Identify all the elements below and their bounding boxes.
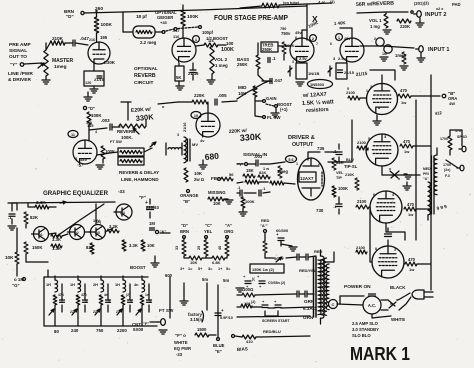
potentiometer VOL1 1meg <box>369 14 388 29</box>
resistor 10K in <box>5 252 19 264</box>
label driver pins <box>296 162 320 166</box>
ground cathode box <box>90 86 98 93</box>
label stage circled 2 <box>310 35 317 42</box>
svg-text:60/300: 60/300 <box>276 228 289 233</box>
tube V9 reverb-recovery <box>73 140 97 164</box>
wire eq band 1 bottom <box>54 322 56 326</box>
svg-text:250K: 250K <box>262 47 272 52</box>
inductor eq band 4 <box>123 276 126 292</box>
svg-text:1m: 1m <box>382 52 387 56</box>
label OPTIONAL REVERB CIRCUIT <box>134 66 158 86</box>
resistor MISSING 10K <box>208 190 233 206</box>
svg-text:OUT TO: OUT TO <box>9 54 27 60</box>
label 1w res <box>263 167 269 171</box>
label reverb top 4 <box>151 142 154 146</box>
resistor 3.3K eq top <box>28 200 56 209</box>
resistor 100K mid <box>278 42 295 60</box>
svg-text:750v: 750v <box>281 31 291 36</box>
label 140K <box>334 20 347 26</box>
wire V1 cathode down <box>93 63 95 71</box>
svg-text:"C": "C" <box>205 223 212 228</box>
wire Y to master pot <box>24 63 42 64</box>
svg-text:FT SW: FT SW <box>159 308 174 313</box>
svg-text:100K: 100K <box>245 199 255 204</box>
wire eq mid rails <box>17 203 113 262</box>
tube V2 half-12AX7 <box>172 38 196 62</box>
resistor 470 1w V8 <box>405 257 417 272</box>
svg-text:3.3K: 3.3K <box>129 243 138 248</box>
capacitor .1 driver <box>333 144 342 162</box>
svg-text:BLUE: BLUE <box>213 343 225 348</box>
svg-text:2200: 2200 <box>117 328 127 333</box>
svg-text:x2 x: x2 x <box>436 7 444 11</box>
wire R1 to V1 plate <box>96 33 98 42</box>
resistor eq band 1 <box>53 295 57 305</box>
wire white lead <box>372 314 391 318</box>
label E30K <box>104 60 116 65</box>
resistor 470 1w V6 <box>400 139 413 154</box>
wire V3 plate up <box>302 30 307 38</box>
label GRN 6.3AC GRN <box>303 299 317 320</box>
potentiometer eq slider 4 <box>117 305 123 322</box>
svg-text:"F" o: "F" o <box>175 333 186 338</box>
svg-text:INPUT 2: INPUT 2 <box>425 12 446 18</box>
svg-text:(2): (2) <box>126 293 130 297</box>
capacitor 220/63 <box>145 199 159 218</box>
plug AC <box>398 290 433 310</box>
svg-text:1500: 1500 <box>197 327 207 332</box>
breaker circle C <box>329 300 338 309</box>
svg-text:8: 8 <box>375 247 377 251</box>
resistor eq band 3 <box>99 295 103 305</box>
svg-text:100K: 100K <box>187 14 199 20</box>
wire V2 plate right <box>196 43 226 47</box>
wire speaker net <box>446 130 462 168</box>
svg-text:OPTIONAL: OPTIONAL <box>134 66 158 71</box>
resistor 470 1w V5 <box>398 88 411 105</box>
svg-text:3.3K: 3.3K <box>36 200 46 205</box>
label BLACK <box>390 285 406 290</box>
label X2 <box>77 163 84 168</box>
ground input1 jack <box>380 53 425 70</box>
svg-text:2100: 2100 <box>357 199 367 204</box>
svg-text:3: 3 <box>370 85 372 89</box>
wire V7V8 join <box>370 207 405 262</box>
svg-text:2.5 AMP SLO: 2.5 AMP SLO <box>352 321 379 326</box>
wire screen rail <box>415 100 417 240</box>
label .047 116 <box>172 28 180 39</box>
label ps small a <box>246 284 262 289</box>
wire oval right to switch <box>155 31 165 34</box>
svg-text:1meg: 1meg <box>277 169 288 174</box>
svg-text:1M: 1M <box>149 221 155 226</box>
svg-text:150K 1w (2): 150K 1w (2) <box>252 267 275 272</box>
svg-text:21/16: 21/16 <box>183 122 187 132</box>
svg-text:Q4: Q4 <box>120 211 125 215</box>
capacitor .1 eq <box>8 203 16 230</box>
resistor 220K mid <box>192 93 208 104</box>
label 1M out <box>149 221 155 230</box>
svg-text:1 mg: 1 mg <box>370 24 380 29</box>
label w/12AX7 annotation <box>302 92 334 114</box>
potentiometer eq slider 3 <box>95 305 101 322</box>
capacitor HH pair <box>297 291 313 297</box>
label MID 10K <box>238 85 257 97</box>
wire eq band 3 bottom <box>100 322 102 326</box>
label 21/15 left <box>356 71 368 77</box>
svg-text:"A": "A" <box>225 223 232 228</box>
svg-text:FB: FB <box>211 176 218 181</box>
capacitor .1 <box>268 56 276 63</box>
jack speaker 8ohm <box>459 146 466 152</box>
label 750/45 <box>280 27 286 31</box>
svg-text:5: 5 <box>368 137 370 141</box>
svg-text:E30K: E30K <box>104 60 116 65</box>
label V9 105 <box>86 121 92 125</box>
wire mid pot <box>255 97 265 102</box>
svg-text:1: 1 <box>366 89 368 93</box>
svg-text:4: 4 <box>95 130 97 134</box>
tube input tri2 <box>384 45 392 53</box>
wire R 100K to V2 <box>182 5 184 38</box>
svg-text:220K: 220K <box>194 93 205 98</box>
svg-text:6.8K: 6.8K <box>212 260 221 265</box>
label VEL <box>336 171 344 180</box>
resistor screen v <box>332 186 348 197</box>
resistor 100K recovery2 <box>101 146 115 159</box>
label F node <box>139 195 146 200</box>
resistor 100ohm <box>242 287 255 297</box>
resistor 100K recovery <box>87 112 102 128</box>
svg-text:2.5v: 2.5v <box>338 56 347 61</box>
svg-text:47K: 47K <box>58 293 65 297</box>
resistor 2100 V7 <box>356 199 369 209</box>
label WHITE EQ PWR <box>174 340 191 357</box>
resistor 82K q3 <box>86 243 94 254</box>
svg-text:1H: 1H <box>46 283 51 287</box>
resistor 150K <box>24 242 43 254</box>
label 1N5303 oval <box>308 80 333 89</box>
label misc 1700 <box>440 135 467 141</box>
capacitor .005 mid <box>215 93 227 105</box>
capacitor .047 bass <box>270 78 283 84</box>
wire eq to F rail <box>160 232 170 234</box>
wire Q1 diag rail <box>57 204 104 236</box>
wire row3 <box>237 316 310 317</box>
resistor 10K 2w <box>184 168 205 182</box>
svg-text:33: 33 <box>175 246 179 250</box>
wire node-260 drop <box>95 10 97 17</box>
svg-text:2100: 2100 <box>356 245 366 250</box>
svg-text:1w: 1w <box>401 100 407 105</box>
coil interstage transformer <box>183 122 190 162</box>
svg-text:MV: MV <box>192 142 198 147</box>
svg-text:"A'": "A'" <box>260 223 268 228</box>
label 680 <box>204 151 219 162</box>
ground 5K <box>176 86 184 90</box>
wire ps vertical 1 <box>180 283 188 305</box>
resistor 100K stage2 plate <box>181 10 199 26</box>
wire V8 top cap <box>385 228 392 246</box>
label vol2 small <box>208 39 214 43</box>
resistor 2100 V5 <box>346 87 366 100</box>
svg-text:PRE AMP: PRE AMP <box>9 42 31 48</box>
svg-text:470: 470 <box>407 202 415 207</box>
svg-text:(2x): (2x) <box>444 168 451 172</box>
wire ps feed left <box>169 277 171 318</box>
capacitor .1 row b <box>259 186 270 196</box>
wire V4 plate up <box>340 28 352 38</box>
svg-text:-33: -33 <box>176 352 183 357</box>
label FT SW small <box>110 140 122 144</box>
label 220K w 330K <box>131 107 155 123</box>
wire recovery grid <box>89 125 120 140</box>
svg-text:150K: 150K <box>32 245 43 250</box>
resistor cathode 1.5K V4 <box>336 63 347 79</box>
svg-text:2100: 2100 <box>357 140 367 145</box>
svg-text:RED/YEL: RED/YEL <box>299 268 317 273</box>
label 18pf <box>136 14 147 19</box>
resistor 10K out <box>141 240 155 251</box>
svg-text:.1: .1 <box>60 300 63 304</box>
svg-text:Q1: Q1 <box>38 233 43 237</box>
wire left col <box>12 202 17 204</box>
svg-text:.003: .003 <box>101 118 110 123</box>
potentiometer eq slider 5 <box>136 305 142 322</box>
svg-text:120: 120 <box>85 81 91 85</box>
label 0 2.5v <box>294 56 308 61</box>
label stage circled 1b <box>336 34 343 41</box>
svg-text:RED: RED <box>314 249 323 254</box>
transistor Q2 <box>68 225 85 240</box>
label 999 <box>436 204 447 211</box>
svg-text:(+1): (+1) <box>280 107 288 112</box>
svg-text:"Y": "Y" <box>10 62 17 67</box>
svg-text:VOL 1: VOL 1 <box>369 18 382 23</box>
svg-text:LINE /PWR: LINE /PWR <box>8 71 33 77</box>
jack INPUT1 <box>416 46 450 53</box>
capacitor .047 coupling <box>73 35 108 46</box>
wire V8 plate right <box>417 263 431 265</box>
svg-text:2H: 2H <box>93 283 98 287</box>
node F white <box>175 327 216 338</box>
svg-text:18 pf: 18 pf <box>136 14 147 19</box>
label 5.6 oval <box>286 156 297 163</box>
capacitor cathode box 21/16 <box>84 71 105 86</box>
potentiometer VOL2 1meg <box>210 46 228 74</box>
label TIP-SL cluster <box>344 158 359 190</box>
resistor 82K eq <box>24 212 39 224</box>
svg-text:Q3: Q3 <box>95 231 100 235</box>
svg-text:VEL: VEL <box>336 171 344 175</box>
tube V11 driver 12AX7 <box>298 158 325 200</box>
label 10V <box>93 219 100 223</box>
capacitor eq band 2 <box>83 284 88 312</box>
label ps 33 40 <box>251 300 256 304</box>
resistor 100 row2 <box>241 302 252 308</box>
wire V7 plate right <box>416 208 431 210</box>
wire PT prim leads <box>313 252 334 294</box>
resistor output net <box>448 130 452 155</box>
wire V5 top <box>370 70 395 83</box>
svg-text:10K: 10K <box>147 243 155 248</box>
svg-text:INPUT 1: INPUT 1 <box>428 47 449 53</box>
svg-text:3: 3 <box>292 60 294 64</box>
label circled 10 <box>191 112 201 119</box>
wire long rail mid <box>237 81 269 99</box>
svg-text:REVERB: REVERB <box>117 129 135 134</box>
svg-text:"B": "B" <box>183 199 190 204</box>
wire ps row1 <box>236 288 296 295</box>
svg-text:100K: 100K <box>338 186 348 191</box>
label OT PRI <box>423 163 451 181</box>
svg-text:(on tube): (on tube) <box>283 1 300 5</box>
svg-text:40: 40 <box>218 246 222 250</box>
svg-text:OUTPUT: OUTPUT <box>292 142 314 148</box>
wire b+ rail right <box>430 75 432 290</box>
wire input2 <box>357 12 424 34</box>
svg-text:100K: 100K <box>221 47 234 53</box>
svg-text:.047: .047 <box>172 28 180 33</box>
label RED BLU <box>263 329 281 334</box>
svg-text:VOL 2: VOL 2 <box>214 57 228 62</box>
tube V6 power <box>366 134 398 166</box>
svg-text:PRI: PRI <box>423 172 429 176</box>
resistor 210K grid <box>50 36 65 45</box>
label 3.3K q3q4 <box>107 224 119 233</box>
capacitor .003 driver <box>254 154 263 166</box>
svg-text:3.3K: 3.3K <box>52 237 61 242</box>
tube V3 half-12AX7 <box>290 35 314 62</box>
label pin V7 <box>373 193 394 197</box>
svg-text:CIRCUIT: CIRCUIT <box>134 80 154 86</box>
svg-text:105: 105 <box>86 121 92 125</box>
svg-text:SIGNAL: SIGNAL <box>9 48 27 54</box>
tube input tri1 <box>376 38 384 46</box>
svg-text:5: 5 <box>347 87 349 91</box>
label 100K plate2 <box>221 41 234 53</box>
capacitor 5.9F <box>215 308 233 320</box>
svg-text:GRAPHIC EQUALIZER: GRAPHIC EQUALIZER <box>43 190 108 197</box>
svg-text:2w Ω: 2w Ω <box>194 177 205 182</box>
switch GAIN dashed <box>266 96 277 107</box>
svg-text:50BY: 50BY <box>274 256 284 261</box>
capacitor HH bias <box>286 254 316 260</box>
svg-text:470: 470 <box>408 257 416 262</box>
svg-text:"D": "D" <box>181 223 188 228</box>
wire driver bottom <box>237 164 295 185</box>
svg-text:4: 4 <box>392 193 394 197</box>
resistor eq band 2 <box>76 295 80 305</box>
svg-text:.005: .005 <box>218 93 227 98</box>
svg-text:1w: 1w <box>404 149 410 154</box>
ground recovery <box>96 159 104 169</box>
label FB feedback <box>211 172 234 181</box>
label 735 <box>317 146 325 151</box>
resistor 2100 V8 <box>356 245 367 254</box>
capacitor-resistor parallel oval 2.2meg <box>133 26 157 45</box>
coil power transformer <box>314 250 324 324</box>
label X mark <box>307 14 319 29</box>
wire V6 down <box>382 166 420 175</box>
svg-text:-33: -33 <box>118 189 125 194</box>
label bank 2H <box>70 310 120 314</box>
wire Q3 collector up <box>95 204 97 224</box>
label 412 <box>434 110 442 116</box>
svg-text:470: 470 <box>403 139 411 144</box>
resistor 13K <box>51 244 62 251</box>
svg-text:18V: 18V <box>80 157 87 162</box>
label D2 wire 115 <box>95 130 97 134</box>
circle AC <box>363 294 381 314</box>
label RED YEL <box>299 268 317 273</box>
node FL SW <box>255 101 281 120</box>
label 330K big <box>229 128 262 143</box>
svg-text:TIP-SL: TIP-SL <box>344 164 358 169</box>
inductor eq band 1 <box>55 276 58 292</box>
label pin V6 <box>368 137 370 141</box>
svg-text:750: 750 <box>280 27 286 31</box>
capacitor .1 row a <box>237 185 256 196</box>
resistor 1meg driver <box>277 166 288 178</box>
wire eq band 4 bottom <box>122 322 124 326</box>
transistor Q4 <box>114 204 132 220</box>
tube V4 half-12AX7 <box>340 38 364 62</box>
svg-text:& DRIVER: & DRIVER <box>8 77 31 83</box>
svg-text:3: 3 <box>394 248 396 252</box>
coil output transformer <box>428 148 437 220</box>
label LINE/PWR DRIVER <box>8 71 33 83</box>
svg-text:1meg: 1meg <box>54 64 67 70</box>
svg-text:4v: 4v <box>200 138 205 143</box>
wire tone stack <box>258 43 272 81</box>
svg-text:11: 11 <box>71 133 75 137</box>
wire 2100 V6 res <box>357 146 368 150</box>
svg-text:220K: 220K <box>400 24 410 29</box>
svg-text:C: C <box>332 302 335 307</box>
svg-text:.1: .1 <box>107 300 110 304</box>
svg-text:"E": "E" <box>215 349 222 354</box>
label 216 V1 <box>89 38 95 42</box>
svg-text:.1: .1 <box>148 300 151 304</box>
node G input <box>12 277 26 288</box>
svg-text:Q2: Q2 <box>74 231 79 235</box>
svg-text:412: 412 <box>434 110 442 116</box>
ground V7 top <box>403 182 411 190</box>
tube V5 phase-inverter <box>367 84 398 115</box>
wire AC top <box>337 296 364 305</box>
svg-text:C0/35n (2): C0/35n (2) <box>268 281 286 285</box>
resistor 150K bias <box>263 241 267 258</box>
label 4v MV <box>192 138 205 147</box>
svg-text:REVERB & DELAY: REVERB & DELAY <box>119 170 159 175</box>
ground VOL2 <box>207 74 215 84</box>
svg-text:17n: 17n <box>455 129 461 133</box>
capacitor .1 screen <box>333 197 342 214</box>
coil reverb tank L <box>118 148 144 156</box>
svg-text:+45: +45 <box>160 20 168 25</box>
resistor 470 1w V7 <box>404 202 416 217</box>
capacitor eq band 1 <box>60 284 65 312</box>
label eq top q <box>96 220 102 224</box>
potentiometer eq slider 2 <box>72 305 78 322</box>
svg-text:MASTER: MASTER <box>52 58 74 64</box>
svg-text:100pf: 100pf <box>202 30 214 35</box>
svg-text:(2): (2) <box>330 0 335 4</box>
svg-text:100K: 100K <box>101 22 113 28</box>
label REVERB DELAY LINE <box>119 170 159 182</box>
svg-text:MED: MED <box>423 167 431 171</box>
